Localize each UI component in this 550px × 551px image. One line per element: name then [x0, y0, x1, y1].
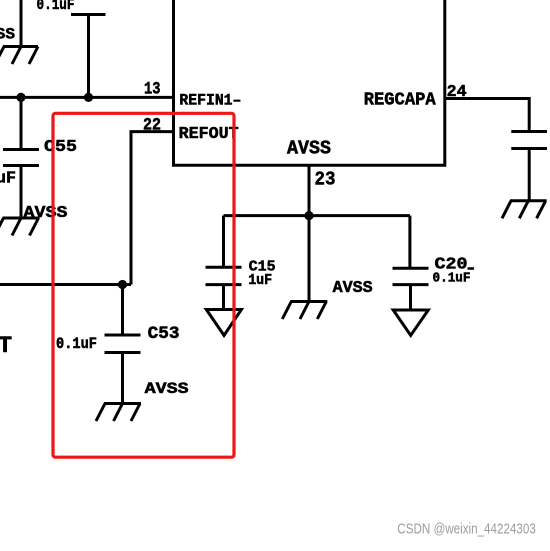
- capacitor C20: [393, 216, 429, 310]
- svg-text:T: T: [0, 333, 12, 360]
- svg-text:REFOUT: REFOUT: [179, 125, 239, 144]
- capacitor C55: [3, 97, 39, 218]
- junction dot C: [118, 280, 127, 289]
- wire AVSS net horizontal: [224, 214, 410, 217]
- ground top-left (AVSS): [0, 47, 38, 65]
- svg-text:REFIN1–: REFIN1–: [179, 92, 241, 110]
- svg-text:VSS: VSS: [0, 25, 15, 43]
- wire REFIN1- net: [0, 96, 174, 99]
- ground middle AVSS: [282, 216, 327, 319]
- op-amp U1 IC outline: [174, 0, 445, 165]
- svg-text:AVSS: AVSS: [287, 137, 331, 159]
- svg-text:uF: uF: [0, 169, 16, 188]
- capacitor C53: [105, 285, 141, 404]
- svg-text:C55: C55: [44, 138, 77, 157]
- svg-text:REGCAPA: REGCAPA: [364, 91, 436, 111]
- svg-text:1uF: 1uF: [248, 272, 272, 289]
- capacitor at REGCAPA: [511, 132, 547, 201]
- svg-text:23: 23: [315, 168, 336, 190]
- wire AVSS stub top-left: [20, 0, 23, 47]
- junction dot A: [16, 93, 25, 102]
- capacitor C15: [206, 216, 242, 310]
- svg-text:13: 13: [144, 80, 161, 100]
- wire REFOUT net: [0, 132, 174, 285]
- wire stub after C20 label: [468, 267, 475, 270]
- svg-text:0.1uF: 0.1uF: [56, 335, 97, 353]
- svg-text:AVSS: AVSS: [145, 380, 189, 398]
- wire REGCAPA net: [445, 99, 529, 132]
- ground C55: [0, 218, 40, 236]
- svg-text:0.1uF: 0.1uF: [37, 0, 75, 14]
- junction dot B: [84, 93, 93, 102]
- wire AVSS pin 23 stub: [308, 165, 311, 215]
- wire capacitor stem to net: [87, 15, 90, 98]
- svg-text:AVSS: AVSS: [333, 279, 373, 298]
- ground C53: [96, 404, 141, 422]
- svg-text:C53: C53: [148, 324, 180, 344]
- junction dot D: [304, 211, 313, 220]
- ground triangle C15: [206, 310, 241, 336]
- capacitor top (0.1uF) bottom plate: [71, 13, 106, 16]
- ground triangle C20: [393, 310, 428, 335]
- svg-text:CSDN @weixin_44224303: CSDN @weixin_44224303: [397, 522, 536, 538]
- ground REGCAPA cap: [502, 201, 547, 219]
- svg-text:0.1uF: 0.1uF: [433, 270, 471, 286]
- highlight box (red annotation rectangle): [53, 113, 234, 457]
